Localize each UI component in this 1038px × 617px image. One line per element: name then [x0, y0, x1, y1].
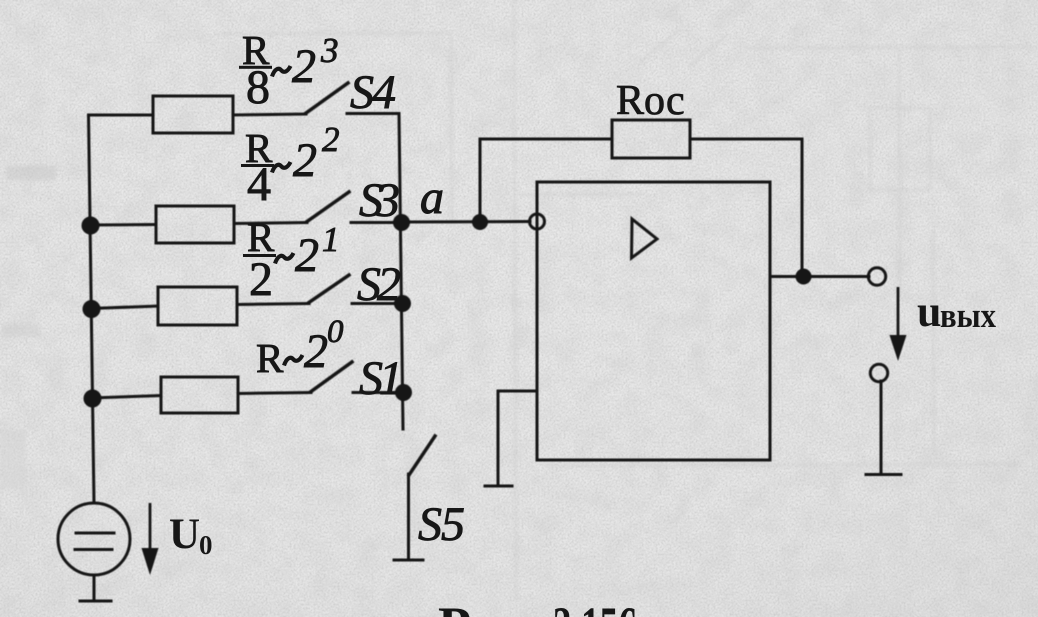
wire S1 fixed contact to right bus	[353, 391, 403, 394]
op-amp triangle symbol	[632, 219, 658, 258]
switch S1 blade	[311, 362, 352, 392]
node bus row2	[82, 217, 100, 235]
node a junction	[393, 214, 410, 231]
wire S2 fixed contact to right bus	[352, 302, 402, 305]
source U0 lower bar	[75, 548, 112, 551]
svg-text:S4: S4	[350, 66, 396, 119]
ground output	[866, 473, 901, 476]
arrow u_out	[897, 287, 900, 339]
svg-text:4: 4	[247, 158, 271, 211]
resistor Roc	[612, 120, 690, 158]
label tilde row2	[272, 162, 291, 173]
terminal output upper circle	[868, 268, 885, 285]
node bus row3	[83, 300, 101, 318]
wire row2 bus to R2	[90, 223, 156, 227]
wire S4 fixed contact to right bus	[347, 112, 399, 115]
node S1 junction	[395, 384, 412, 401]
node feedback junction	[472, 214, 488, 230]
svg-text:Рис.: Рис.	[438, 596, 540, 617]
svg-text:0: 0	[199, 530, 213, 560]
wire row1 bus to R1	[89, 114, 154, 117]
wire R3 to switch S2 pivot	[237, 304, 309, 305]
svg-text:1: 1	[322, 220, 340, 259]
node output junction	[796, 269, 812, 285]
wire feedback to Roc	[480, 138, 612, 141]
wire feedback right vertical	[801, 139, 804, 277]
wire Roc to right corner	[690, 138, 802, 141]
wire S3 fixed contact to node a	[351, 221, 401, 224]
op-amp inverting input circle	[530, 214, 545, 229]
svg-text:вых: вых	[940, 296, 996, 335]
svg-text:2: 2	[322, 120, 340, 159]
svg-text:S1: S1	[359, 352, 403, 405]
wire node a to op-amp input	[401, 220, 530, 224]
wire R2 to switch S3 pivot	[234, 223, 307, 224]
switch S4 blade	[306, 83, 348, 113]
svg-text:2: 2	[293, 134, 317, 187]
svg-text:S2: S2	[357, 258, 401, 311]
switch S3 blade	[307, 192, 349, 222]
svg-text:S3: S3	[359, 174, 400, 227]
terminal output lower circle	[870, 364, 887, 381]
wire row3 bus to R3	[91, 306, 158, 309]
svg-text:8: 8	[246, 61, 270, 114]
svg-text:2: 2	[295, 229, 319, 282]
wire feedback left vertical	[479, 139, 482, 221]
arrow U0	[149, 503, 152, 549]
svg-text:3.156: 3.156	[553, 596, 637, 617]
wire op-amp ground stub	[498, 391, 537, 485]
wire lower terminal to ground	[880, 381, 883, 473]
ground op-amp	[485, 485, 512, 488]
label tilde row4	[284, 355, 303, 366]
resistor R/4	[156, 206, 234, 243]
label tilde row3	[275, 253, 294, 264]
wire R1 to switch S4 pivot	[233, 114, 306, 115]
ground S5	[394, 559, 423, 562]
switch S2 blade	[309, 275, 349, 303]
svg-text:2: 2	[249, 253, 273, 306]
svg-text:u: u	[917, 287, 941, 336]
wire right bus vertical	[399, 114, 403, 430]
source U0 upper bar	[76, 532, 114, 535]
svg-text:3: 3	[320, 31, 339, 70]
node bus row4	[84, 390, 102, 408]
ground source	[80, 600, 111, 603]
op-amp U1 body	[537, 182, 770, 460]
resistor R	[161, 377, 238, 413]
wire op-amp output	[770, 275, 869, 278]
resistor R/2	[158, 287, 237, 325]
svg-text:R: R	[256, 335, 284, 381]
label tilde row1	[272, 66, 291, 77]
svg-text:2: 2	[292, 40, 316, 93]
resistor R/8	[153, 96, 233, 133]
svg-text:Rос: Rос	[616, 78, 685, 124]
wire S5 lower vertical	[407, 474, 410, 559]
wire left bus vertical	[89, 115, 95, 503]
wire R4 to switch S1 pivot	[238, 393, 311, 394]
svg-text:2: 2	[304, 325, 328, 378]
svg-text:S5: S5	[418, 498, 465, 551]
switch S5 blade	[409, 436, 435, 475]
wire row4 bus to R4	[92, 396, 161, 399]
svg-text:U: U	[169, 511, 200, 558]
svg-text:0: 0	[327, 314, 344, 350]
source U0 circle	[58, 503, 130, 575]
wire source to ground	[93, 575, 96, 600]
node S2 junction	[394, 295, 411, 312]
svg-text:a: a	[420, 171, 444, 224]
